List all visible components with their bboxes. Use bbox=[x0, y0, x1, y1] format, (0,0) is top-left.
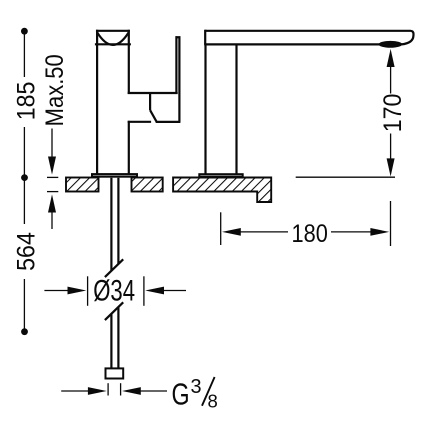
svg-text:Ø34: Ø34 bbox=[93, 273, 135, 307]
mixer base flange bbox=[91, 173, 138, 178]
mixer body bbox=[97, 30, 151, 174]
label G 3/8 bbox=[172, 376, 218, 412]
svg-text:Max.50: Max.50 bbox=[41, 54, 69, 126]
dimension G3/8 bbox=[61, 383, 167, 395]
deck slab right (L-shape) bbox=[173, 178, 271, 203]
spout aerator bbox=[379, 41, 403, 48]
svg-text:G: G bbox=[172, 376, 190, 411]
dimension 564 line bbox=[21, 279, 28, 335]
supply pipe upper bbox=[111, 178, 118, 271]
spout column bbox=[206, 44, 237, 173]
deck slab left A bbox=[66, 178, 99, 192]
dimension 170 bbox=[296, 49, 395, 177]
handle lever bbox=[128, 36, 181, 122]
spout base flange bbox=[198, 173, 243, 178]
supply pipe lower bbox=[111, 307, 118, 368]
svg-text:180: 180 bbox=[292, 220, 328, 248]
mixer cap bbox=[95, 31, 131, 45]
svg-text:170: 170 bbox=[379, 94, 407, 133]
dimension 185 line bbox=[21, 28, 28, 224]
deck slab left B bbox=[132, 178, 163, 192]
pipe break upper bbox=[105, 259, 123, 277]
G3/8 fitting bbox=[106, 368, 124, 378]
pipe break lower bbox=[105, 302, 123, 320]
dimension Ø34 bbox=[44, 276, 186, 306]
svg-text:3: 3 bbox=[190, 376, 201, 398]
spout arm bbox=[204, 30, 413, 45]
svg-text:564: 564 bbox=[13, 232, 41, 271]
svg-text:8: 8 bbox=[207, 391, 217, 412]
dimension 180 bbox=[221, 201, 391, 246]
svg-text:185: 185 bbox=[13, 82, 41, 121]
dimension Max.50 arrows bbox=[47, 129, 58, 230]
